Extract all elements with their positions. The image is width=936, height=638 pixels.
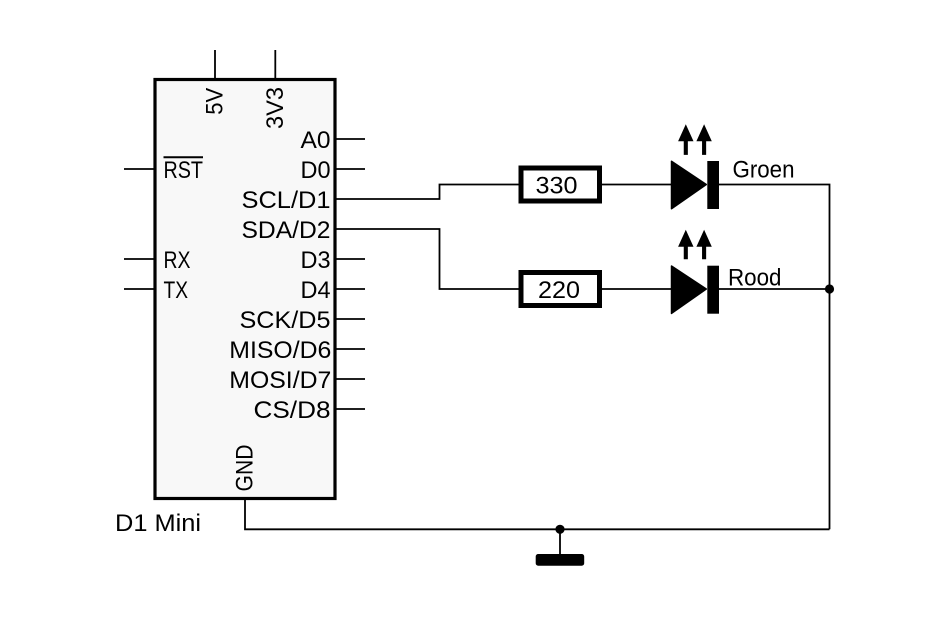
svg-text:D1 Mini: D1 Mini: [115, 511, 201, 537]
wire LED D2 to right rail: [719, 288, 830, 290]
svg-text:D3: D3: [301, 248, 331, 274]
wire A0 pin stub: [335, 138, 365, 140]
LED D1 Groen triangle: [672, 161, 707, 208]
svg-text:TX: TX: [164, 278, 189, 304]
junction node ground: [555, 525, 564, 534]
ground symbol bar: [536, 554, 585, 566]
svg-text:CS/D8: CS/D8: [254, 398, 331, 424]
LED D2 cathode bar: [707, 266, 719, 314]
wire SDA/D2 to resistor R2: [335, 229, 521, 289]
resistor R2 220: [521, 273, 600, 306]
ground symbol stem: [559, 529, 561, 555]
svg-text:220: 220: [538, 278, 580, 304]
wire 5V top pin: [214, 50, 216, 80]
wire D5 pin stub: [335, 318, 365, 320]
LED D1 cathode bar: [707, 161, 719, 209]
wire 3V3 top pin: [274, 50, 276, 80]
svg-text:5V: 5V: [203, 88, 229, 115]
wire GND pin down and bottom rail: [245, 499, 830, 530]
LED D1 arrow 1: [678, 124, 693, 155]
junction node LED D2 / rail: [825, 284, 834, 293]
svg-text:GND: GND: [233, 445, 259, 492]
wire D0 pin stub: [335, 168, 365, 170]
LED D1 arrow 2: [696, 124, 711, 155]
svg-text:RST: RST: [164, 158, 204, 184]
wire D4 pin stub: [335, 288, 365, 290]
wire TX left pin: [124, 288, 155, 290]
pin label RST with overline: [164, 157, 204, 184]
svg-text:RX: RX: [164, 248, 191, 274]
wire LED D1 to right rail: [719, 185, 830, 530]
IC U1 D1 Mini body: [155, 80, 335, 499]
wire D8 pin stub: [335, 408, 365, 410]
svg-text:A0: A0: [301, 128, 331, 154]
svg-text:SDA/D2: SDA/D2: [242, 218, 331, 244]
svg-text:SCK/D5: SCK/D5: [240, 308, 331, 334]
wire R2 to LED D2: [600, 288, 672, 290]
svg-text:330: 330: [536, 173, 578, 199]
svg-text:Groen: Groen: [733, 158, 795, 184]
wire D6 pin stub: [335, 348, 365, 350]
svg-text:MOSI/D7: MOSI/D7: [229, 368, 331, 394]
resistor R1 330: [521, 168, 600, 201]
LED D2 arrow 1: [678, 230, 693, 260]
svg-text:SCL/D1: SCL/D1: [242, 188, 331, 214]
svg-text:D0: D0: [301, 158, 331, 184]
wire D7 pin stub: [335, 378, 365, 380]
LED D2 arrow 2: [696, 230, 711, 260]
wire R1 to LED D1: [600, 184, 672, 186]
svg-text:D4: D4: [301, 278, 331, 304]
wire RST left pin: [124, 168, 155, 170]
wire SCL/D1 to resistor R1: [335, 185, 521, 200]
svg-text:MISO/D6: MISO/D6: [229, 338, 331, 364]
LED D2 Rood triangle: [672, 266, 707, 313]
wire D3 pin stub: [335, 258, 365, 260]
svg-text:Rood: Rood: [728, 266, 782, 292]
svg-text:3V3: 3V3: [263, 87, 289, 129]
wire RX left pin: [124, 258, 155, 260]
